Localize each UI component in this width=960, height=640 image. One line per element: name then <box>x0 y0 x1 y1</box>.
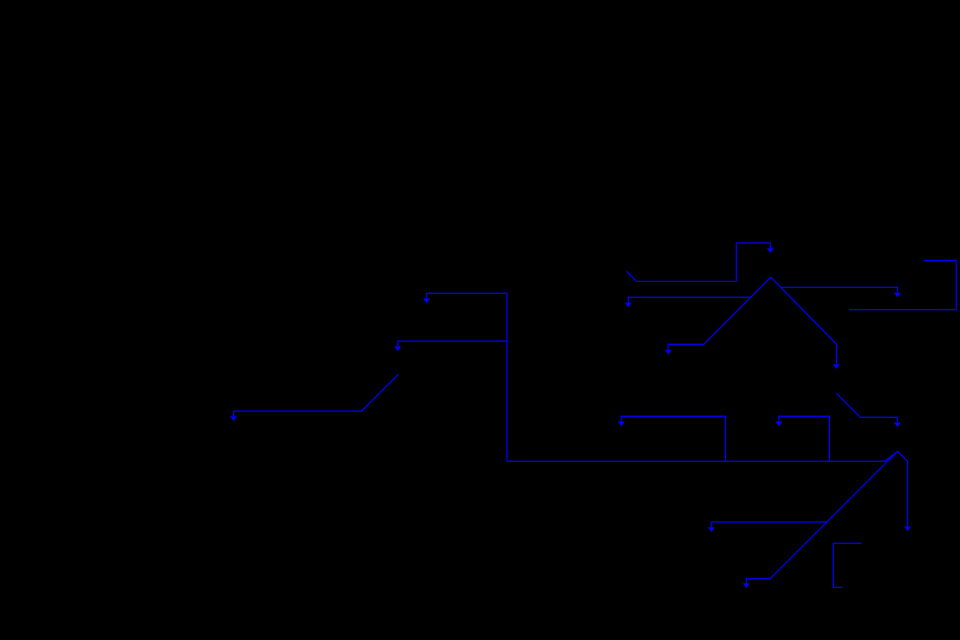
edge A: top-left elbow into top node <box>627 243 774 281</box>
edge J: apex2 down-right vertical to arrow <box>898 451 912 531</box>
edge H: riser from bus to left arrow <box>618 416 726 461</box>
edge M: tall left riser with top arrow <box>423 293 507 461</box>
edge I: riser from bus to arrow <box>775 416 829 461</box>
edge L: horizontal branch from K diagonal to arrow <box>708 522 827 532</box>
edge C: apex down-left diagonal to arrow <box>665 277 771 354</box>
edge N: horizontal branch from riser to arrow <box>394 341 507 351</box>
wire: long horizontal bus to apex2 <box>507 451 898 461</box>
edge B: horizontal branch left from apex diagonal <box>625 297 751 307</box>
edge F: top-right rectangular hook <box>849 260 956 309</box>
edge D: apex down-right diagonal to arrow <box>771 277 840 369</box>
edge K: apex2 long down-left diagonal to arrow <box>743 451 898 588</box>
edge G: mid-right diagonal elbow to arrow <box>836 393 901 427</box>
edge P: bottom-centre C-shaped hook <box>833 543 861 587</box>
edge O: diagonal then long horizontal to far-left arrow <box>230 375 398 421</box>
edge E: horizontal branch right from apex diagonal to arrow <box>781 287 901 297</box>
